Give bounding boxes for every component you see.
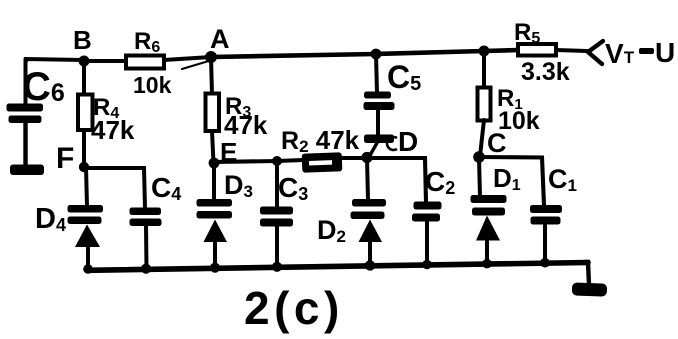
- ground bar: [572, 282, 607, 296]
- label 10k for R1: [498, 107, 540, 135]
- wire left edge down to C6: [24, 59, 28, 104]
- wire node D right to C2: [367, 158, 426, 202]
- node F: [79, 162, 89, 172]
- svg-text:47k: 47k: [91, 115, 135, 145]
- resistor R5: [518, 44, 556, 56]
- wire node C right to C1: [479, 157, 544, 205]
- caption 2(c): [244, 282, 344, 334]
- label C5: [387, 59, 421, 95]
- terminal bar below C6: [10, 165, 44, 176]
- node R1/R5 junction: [479, 46, 490, 57]
- label D3: [224, 170, 253, 201]
- label C node: [487, 128, 507, 158]
- svg-text:47k: 47k: [224, 110, 268, 140]
- resistor R6: [126, 56, 164, 69]
- resistor R4: [78, 95, 93, 131]
- wire R5 to output: [556, 50, 587, 51]
- label C3: [278, 172, 308, 204]
- wire R6 to A: [164, 57, 211, 60]
- node A: [205, 51, 217, 63]
- label C4: [151, 172, 181, 204]
- label 47k for R4: [91, 115, 135, 145]
- svg-text:3.3k: 3.3k: [521, 58, 570, 86]
- wire R3 to E: [212, 131, 214, 163]
- wire A down to R3: [211, 57, 212, 95]
- label R5: [514, 19, 540, 47]
- svg-text:U: U: [655, 37, 675, 68]
- capacitor C2: [412, 202, 442, 265]
- node C3 top junction: [272, 156, 282, 166]
- wire E right to C3 junction: [214, 161, 277, 162]
- label A: [210, 24, 230, 54]
- diode D1 varactor: [471, 195, 507, 264]
- resistor R1: [478, 88, 491, 121]
- label R3: [225, 93, 251, 121]
- label R2 47k: [281, 125, 360, 156]
- resistor R2: [302, 152, 343, 172]
- wire R4 to F: [82, 130, 86, 167]
- diode D3 varactor: [197, 199, 233, 268]
- diode D2 varactor: [351, 158, 387, 264]
- capacitor C5: [364, 54, 395, 157]
- wire junction down to R1: [482, 51, 486, 89]
- svg-text:B: B: [73, 25, 92, 55]
- output arrow chevron: [588, 41, 603, 64]
- label C6: [22, 65, 65, 109]
- node D: [361, 152, 372, 163]
- wire R1 to node C: [480, 120, 484, 156]
- label C2: [425, 166, 455, 198]
- node C2 bottom: [422, 260, 432, 270]
- wire node C down to D1: [479, 157, 480, 197]
- label D2: [317, 215, 346, 246]
- label F: [56, 142, 74, 175]
- svg-text:2(c): 2(c): [244, 282, 344, 334]
- wire bottom rail: [87, 263, 588, 271]
- label R1: [497, 85, 523, 113]
- label B: [73, 25, 92, 55]
- capacitor C6: [7, 104, 44, 167]
- node C3 bottom: [272, 262, 282, 272]
- svg-text:C: C: [487, 128, 507, 158]
- wire C5 junction to R1/R5 junction: [376, 51, 484, 54]
- wire top rail left corner to B: [26, 59, 84, 61]
- node C1 bottom: [540, 258, 550, 268]
- node D2 bottom: [365, 260, 375, 270]
- resistor R3: [206, 94, 220, 132]
- svg-text:10k: 10k: [133, 72, 172, 98]
- node E: [209, 158, 220, 169]
- diode D4 varactor: [68, 205, 104, 269]
- capacitor C3: [260, 161, 293, 268]
- svg-text:R2 47k: R2 47k: [281, 125, 360, 156]
- node C: [473, 151, 485, 163]
- node D4 bottom: [83, 264, 93, 274]
- label VT-U output: [605, 37, 675, 69]
- label 47k for R3: [224, 110, 268, 140]
- label D4: [35, 203, 66, 235]
- node B: [79, 56, 90, 67]
- label D node: [387, 126, 418, 157]
- node D3 bottom: [210, 263, 220, 273]
- wire B down to R4: [82, 61, 86, 96]
- wire F down to D4: [86, 167, 87, 206]
- svg-text:D: D: [398, 126, 418, 157]
- label R6: [134, 28, 160, 56]
- node C4 bottom: [141, 264, 151, 274]
- stray stroke under wire near A: [182, 60, 212, 69]
- wire F right to C4: [84, 168, 145, 208]
- node D1 bottom: [482, 259, 492, 269]
- capacitor C1: [530, 205, 562, 263]
- capacitor C4: [130, 208, 162, 270]
- wire B to R6: [84, 59, 128, 63]
- svg-text:A: A: [210, 24, 230, 54]
- node C5 top junction: [371, 49, 382, 60]
- label 3.3k for R5: [521, 58, 570, 86]
- label 10k for R6: [133, 72, 172, 98]
- label C1: [548, 164, 577, 195]
- wire A to C5 junction: [211, 54, 376, 57]
- label R4: [93, 94, 119, 122]
- label E: [220, 137, 237, 167]
- svg-text:F: F: [56, 142, 74, 175]
- label D1: [493, 163, 521, 194]
- wire E down to D3: [212, 163, 216, 200]
- wire to ground: [585, 262, 589, 285]
- wire R2 to node D: [342, 156, 367, 160]
- wire C3 junction to R2: [277, 160, 304, 161]
- wire junction to R5: [484, 50, 520, 51]
